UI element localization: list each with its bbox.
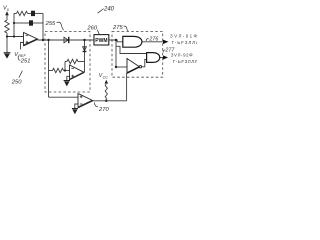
svg-text:250: 250: [11, 80, 22, 86]
svg-text:Г-ЬFЗЛЛЛ: Г-ЬFЗЛЛЛ: [173, 59, 197, 64]
svg-text:260: 260: [86, 26, 97, 32]
svg-text:CC: CC: [103, 76, 109, 80]
svg-text:270: 270: [98, 107, 109, 113]
svg-text:PWM: PWM: [95, 38, 107, 44]
svg-text:275: 275: [112, 25, 123, 31]
svg-text:ЗVЛ-91Ф: ЗVЛ-91Ф: [170, 33, 197, 38]
svg-text:Г-ЬFЗЛЛЛ: Г-ЬFЗЛЛЛ: [172, 40, 197, 45]
svg-text:240: 240: [103, 7, 115, 13]
svg-text:255: 255: [45, 21, 56, 27]
svg-text:276: 276: [148, 36, 158, 42]
svg-text:ЗVЛ-92Ф: ЗVЛ-92Ф: [171, 53, 193, 58]
svg-text:251: 251: [20, 58, 31, 64]
